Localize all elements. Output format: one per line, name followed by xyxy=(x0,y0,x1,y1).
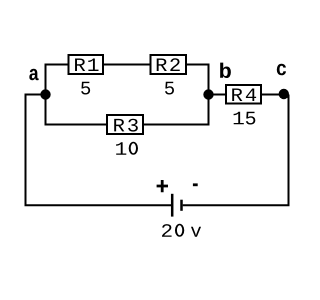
wire middle branch through R3 xyxy=(46,93,209,125)
resistor R4 xyxy=(226,85,261,104)
resistor R3 xyxy=(107,115,143,134)
node a xyxy=(40,89,50,99)
battery positive plate (long) xyxy=(171,194,174,217)
wire battery negative plate right and up right side to node c xyxy=(183,95,289,206)
node c xyxy=(279,89,289,99)
value 5 (R1) xyxy=(81,82,90,95)
node c label xyxy=(277,64,286,76)
wire node b to node c through R4 xyxy=(209,94,289,96)
node b xyxy=(203,89,213,99)
value 5 (R2) xyxy=(165,82,174,95)
node b label xyxy=(220,63,231,78)
resistor R2 xyxy=(151,55,187,74)
battery value 20 v xyxy=(162,224,201,237)
value 10 (R3) xyxy=(116,142,138,155)
battery plus sign xyxy=(157,180,168,192)
resistor R1 xyxy=(69,55,104,74)
wire top branch: node a up, across R1 R2, down to node b xyxy=(46,65,209,97)
wire node a left and down left side to battery positive plate xyxy=(26,95,172,206)
battery minus sign xyxy=(193,183,198,186)
value 15 (R4) xyxy=(234,112,256,125)
battery negative plate (short) xyxy=(180,200,183,211)
node a label xyxy=(29,69,38,81)
